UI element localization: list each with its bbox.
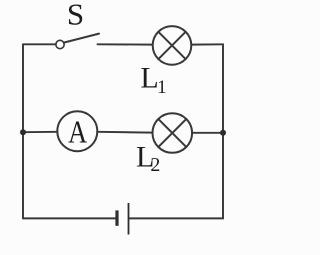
svg-text:S: S xyxy=(67,0,84,31)
lamp L1 xyxy=(153,26,192,65)
wire: top-right segment from lamp L1 to corner xyxy=(191,43,223,45)
wire: right vertical (top corner to bottom corner) xyxy=(222,44,224,218)
svg-text:2: 2 xyxy=(150,154,160,176)
wire: middle segment between ammeter and lamp L2 xyxy=(97,131,152,134)
wire: left vertical (top corner to bottom corner) xyxy=(22,44,24,218)
wire: middle branch right segment xyxy=(192,132,223,134)
node: left junction dot xyxy=(20,129,26,135)
node: right junction dot xyxy=(220,130,226,136)
svg-text:L: L xyxy=(140,62,158,95)
wire: top segment between switch and lamp L1 xyxy=(98,43,153,45)
switch S xyxy=(56,34,99,49)
svg-text:A: A xyxy=(68,114,87,150)
lamp L2 xyxy=(153,113,193,153)
wire: top-left segment from corner to switch xyxy=(23,43,56,45)
battery: long thin positive plate xyxy=(128,203,130,235)
battery: short thick negative plate xyxy=(115,210,118,225)
wire: bottom-left segment from corner to battery xyxy=(23,217,115,219)
wire: bottom-right segment from battery to corner xyxy=(129,217,223,219)
ammeter U1 xyxy=(57,111,97,151)
svg-text:1: 1 xyxy=(157,77,167,98)
wire: middle branch left segment xyxy=(23,131,57,133)
